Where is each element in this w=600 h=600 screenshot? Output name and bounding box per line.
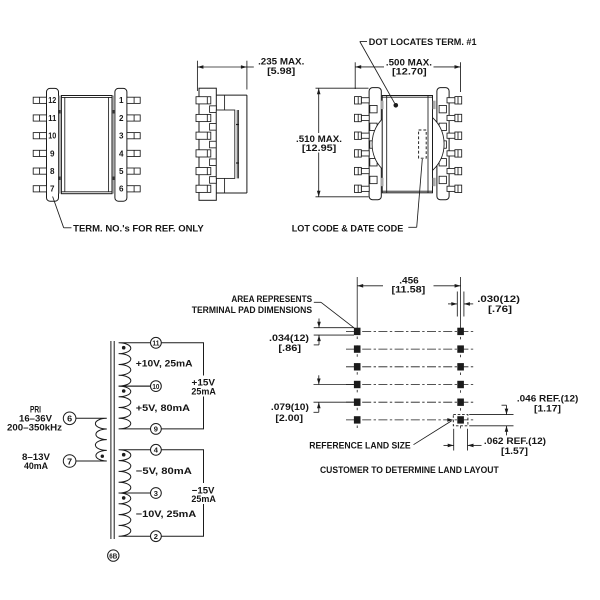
dimension .510 MAX line xyxy=(317,88,321,197)
dimension .235 MAX line xyxy=(197,65,253,69)
dimension .046 arrows xyxy=(502,405,509,435)
svg-text:[11.58]: [11.58] xyxy=(392,284,426,294)
dimension text .500 MAX [12.70] xyxy=(386,58,432,77)
land pattern: right column centerline xyxy=(460,277,462,433)
bottom view: left flange rail xyxy=(369,88,381,200)
svg-text:[2.00]: [2.00] xyxy=(275,413,303,423)
land pattern: row centerlines xyxy=(346,331,474,420)
leader: reference land size xyxy=(414,418,454,445)
package top view: body outline xyxy=(61,96,112,194)
bottom view: left leads xyxy=(355,97,370,193)
land pattern: left terminal pads xyxy=(354,328,361,424)
label +15V 25mA xyxy=(191,377,216,396)
bottom view: round core circle xyxy=(372,108,444,180)
svg-text:11: 11 xyxy=(48,114,57,123)
svg-text:25mA: 25mA xyxy=(191,494,216,504)
polarity dot winding 10-9 xyxy=(122,389,126,393)
svg-text:AREA REPRESENTS: AREA REPRESENTS xyxy=(231,294,312,304)
leader: area represents terminal pad dimensions xyxy=(314,302,355,328)
dimension .500 MAX extension lines xyxy=(355,62,460,92)
terminal 11 xyxy=(151,337,162,348)
primary winding xyxy=(76,418,107,461)
svg-text:7: 7 xyxy=(50,185,55,194)
dimension text .030(12) [.76] xyxy=(477,294,520,314)
svg-text:10: 10 xyxy=(48,132,57,141)
svg-text:LOT CODE & DATE CODE: LOT CODE & DATE CODE xyxy=(292,223,404,233)
svg-text:9: 9 xyxy=(154,425,158,434)
dimension .062 extension lines xyxy=(454,429,468,451)
secondary winding 10-9 (+5V) xyxy=(119,386,151,429)
bottom view: right lead feet xyxy=(439,105,446,183)
terminal 7 xyxy=(63,455,76,468)
svg-text:+5V, 80mA: +5V, 80mA xyxy=(136,403,191,413)
svg-text:−10V, 25mA: −10V, 25mA xyxy=(136,509,197,519)
dimension .456 line xyxy=(357,284,460,288)
package top view: flange tick marks xyxy=(59,110,115,180)
svg-text:3: 3 xyxy=(119,132,124,141)
svg-text:40mA: 40mA xyxy=(24,461,48,471)
terminal 2 xyxy=(151,531,162,542)
svg-text:[.86]: [.86] xyxy=(278,343,301,353)
svg-text:2: 2 xyxy=(119,114,124,123)
dimension text .046 REF.(12) [1.17] xyxy=(517,393,579,413)
package top view: left flange rail xyxy=(47,88,59,201)
svg-text:10: 10 xyxy=(152,382,159,391)
dimension text .456 [11.58] xyxy=(392,275,426,294)
lot/date code dashed area xyxy=(419,130,427,158)
secondary winding 3-2 (-10V) xyxy=(119,493,151,536)
svg-text:25mA: 25mA xyxy=(191,386,216,396)
polarity dot winding 11-10 xyxy=(122,346,126,350)
svg-text:.062 REF.(12): .062 REF.(12) xyxy=(484,436,546,446)
dimension .034 arrows xyxy=(314,319,321,345)
secondary winding 11-10 (+10V) xyxy=(119,343,151,386)
bottom view: right flange rail xyxy=(437,88,449,200)
dimension .030 arrows xyxy=(448,302,473,306)
side view: winding window xyxy=(216,110,238,178)
reference land dashed square xyxy=(453,415,468,426)
secondary winding 4-3 (-5V) xyxy=(119,450,151,493)
terminal 6 xyxy=(63,412,76,425)
bottom view: left lead feet xyxy=(370,105,377,183)
label AREA REPRESENTS TERMINAL PAD DIMENSIONS xyxy=(192,294,312,315)
svg-text:5: 5 xyxy=(119,167,124,176)
bottom view: gray clamp slivers xyxy=(381,101,436,187)
svg-text:1: 1 xyxy=(119,96,124,105)
leader: terminal numbers note xyxy=(53,197,72,228)
schematic id 6B xyxy=(108,550,119,561)
svg-text:−5V, 80mA: −5V, 80mA xyxy=(136,466,192,476)
land pattern: right terminal pads xyxy=(457,328,464,424)
land pattern: left column centerline xyxy=(356,277,358,428)
svg-text:9: 9 xyxy=(50,149,55,158)
terminal numbers 12-7 xyxy=(48,96,57,194)
svg-text:[12.95]: [12.95] xyxy=(302,143,336,153)
dimension .500 MAX line xyxy=(355,65,460,69)
dimension .034 extension lines xyxy=(314,328,354,335)
svg-text:6: 6 xyxy=(119,185,124,194)
primary polarity dot xyxy=(101,455,104,458)
terminal 1 locator dot xyxy=(394,103,399,108)
package top view: right leads (terminals 1-6) xyxy=(127,97,140,192)
svg-text:DOT LOCATES TERM. #1: DOT LOCATES TERM. #1 xyxy=(369,37,477,47)
svg-text:11: 11 xyxy=(152,339,160,348)
svg-text:3: 3 xyxy=(154,489,158,498)
side view: core outline xyxy=(216,95,247,193)
svg-text:4: 4 xyxy=(119,149,124,158)
leader: dot locates term 1 xyxy=(360,42,395,104)
terminal 9 xyxy=(151,424,162,435)
dimension text .034(12) [.86] xyxy=(269,333,309,353)
polarity dot winding 4-3 xyxy=(122,453,126,457)
dimension .046 extension lines xyxy=(469,415,513,426)
dimension text .510 MAX [12.95] xyxy=(296,134,342,153)
svg-text:[5.98]: [5.98] xyxy=(267,66,295,76)
bracket terminals 11-9 (+15V output) xyxy=(161,343,203,376)
leader: lot code and date code xyxy=(408,159,422,227)
terminal 10 xyxy=(151,381,162,392)
dimension .079 extension lines xyxy=(314,385,355,403)
svg-text:[12.70]: [12.70] xyxy=(392,67,427,77)
svg-text:.034(12): .034(12) xyxy=(269,333,309,343)
bottom view: right leads xyxy=(447,97,462,193)
svg-text:6B: 6B xyxy=(109,552,117,561)
terminal 3 xyxy=(151,488,162,499)
svg-text:CUSTOMER TO DETERMINE LAND LAY: CUSTOMER TO DETERMINE LAND LAYOUT xyxy=(320,465,499,475)
terminal numbers 1-6 xyxy=(119,96,124,194)
svg-text:8: 8 xyxy=(50,167,55,176)
svg-text:.235 MAX.: .235 MAX. xyxy=(258,56,304,66)
svg-text:+10V, 25mA: +10V, 25mA xyxy=(136,359,193,369)
svg-text:TERM. NO.'s FOR REF. ONLY: TERM. NO.'s FOR REF. ONLY xyxy=(73,224,204,234)
package top view: right flange rail xyxy=(115,88,127,201)
svg-text:7: 7 xyxy=(67,457,72,466)
side view: bobbin flange xyxy=(199,88,216,200)
label PRI 16-36V 200-350kHz xyxy=(7,404,62,432)
package top view: left leads (terminals 12-7) xyxy=(33,97,46,192)
svg-text:REFERENCE LAND SIZE: REFERENCE LAND SIZE xyxy=(309,440,410,450)
side view: interleaved lead feet xyxy=(210,106,217,183)
dimension text .062 REF.(12) [1.57] xyxy=(484,436,546,456)
dimension text .235 MAX [5.98] xyxy=(258,56,304,76)
terminal 4 xyxy=(151,444,162,455)
label 8-13V 40mA xyxy=(22,452,51,471)
svg-text:[.76]: [.76] xyxy=(488,304,512,314)
svg-text:TERMINAL PAD DIMENSIONS: TERMINAL PAD DIMENSIONS xyxy=(192,305,312,315)
side view: leads xyxy=(196,97,211,193)
transformer core lines xyxy=(111,341,114,539)
dimension .235 MAX extension lines xyxy=(197,61,247,91)
dimension text .079(10) [2.00] xyxy=(271,402,309,423)
svg-text:.046 REF.(12): .046 REF.(12) xyxy=(517,393,579,403)
dimension .062 arrows xyxy=(444,444,482,448)
svg-text:6: 6 xyxy=(67,415,72,424)
package top view: bobbin gap slivers xyxy=(59,96,115,194)
dimension .510 MAX extension lines xyxy=(316,88,369,197)
bracket terminals 4-2 (-15V output) xyxy=(161,450,203,483)
svg-text:.079(10): .079(10) xyxy=(271,402,309,412)
bottom view: center body xyxy=(382,96,432,193)
svg-text:[1.57]: [1.57] xyxy=(501,446,528,456)
svg-text:.030(12): .030(12) xyxy=(477,294,520,304)
label -15V 25mA xyxy=(191,485,216,504)
svg-text:12: 12 xyxy=(48,96,57,105)
svg-text:[1.17]: [1.17] xyxy=(534,404,561,414)
svg-text:4: 4 xyxy=(154,446,159,455)
dimension .079 arrows xyxy=(314,375,321,412)
dimension .030 extension lines xyxy=(457,292,464,317)
svg-text:2: 2 xyxy=(154,532,158,541)
svg-text:200–350kHz: 200–350kHz xyxy=(7,423,62,433)
polarity dot winding 3-2 xyxy=(122,496,126,500)
